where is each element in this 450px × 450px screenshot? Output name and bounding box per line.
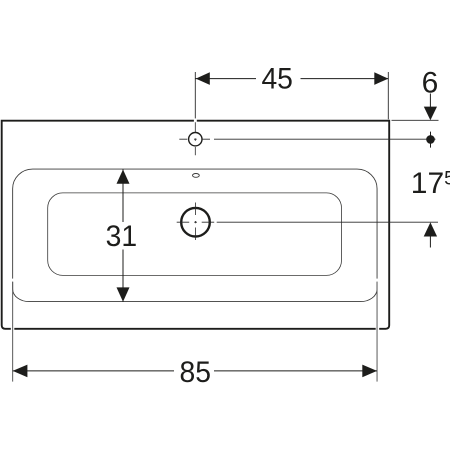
gap in top edge at tap centerline: [194, 119, 197, 123]
ceramic outline (outer rectangle): [2, 121, 390, 329]
dimension 45: dimension line: [195, 78, 388, 80]
dimension 31: dimension line: [122, 170, 124, 302]
tap hole vertical centerline dashes: [194, 122, 196, 155]
drain vertical centerline dashes: [195, 203, 197, 241]
tap hole horizontal centerline dashes: [179, 138, 210, 140]
dimension 45: extension line above right edge: [387, 72, 389, 119]
overflow slot (small ellipse): [193, 174, 200, 178]
svg-text:175: 175: [411, 167, 450, 200]
gap in bowl outer left edge above extension start: [12, 279, 14, 282]
dimension 45: left arrowhead: [196, 72, 210, 85]
dimension 45: extension line above tap hole: [194, 72, 196, 118]
dimension 45: right arrowhead: [374, 72, 388, 85]
tap centerline extension to the right toward dot terminator: [214, 138, 436, 140]
gap in bottom edge at left extension line: [11, 327, 15, 331]
dimension 6: top edge reference line extended right: [392, 119, 439, 121]
svg-text:31: 31: [106, 220, 138, 253]
drain centerline extension to the right: [217, 221, 438, 223]
dimension 6: down arrowhead: [424, 107, 437, 121]
svg-text:6: 6: [422, 67, 439, 100]
dimension 17.5: up arrowhead on drain centerline: [424, 222, 437, 236]
dimension 17.5: tail line below arrow: [429, 237, 431, 248]
dimension 85: right arrowhead: [362, 365, 377, 378]
dimension 85: left arrowhead: [13, 365, 28, 378]
drain horizontal centerline dashes: [177, 221, 215, 223]
dimension 85: dimension line: [13, 370, 377, 372]
dimension 31: up arrowhead: [117, 170, 130, 184]
dimension 85: right extension line: [376, 282, 378, 382]
basin bowl inner outline (rounded rect): [48, 193, 342, 276]
dimension 85: left extension line: [12, 282, 14, 382]
gap in bottom edge at right extension line: [376, 327, 380, 331]
svg-text:45: 45: [261, 63, 293, 96]
dot terminator vertical tick: [430, 132, 432, 148]
drain circle: [181, 208, 210, 237]
dimension 31: down arrowhead: [117, 287, 130, 301]
basin bowl outer outline (rounded rect): [13, 169, 377, 302]
dimension 6: dimension line above arrow: [429, 94, 431, 108]
dot terminator on tap centerline: [426, 135, 435, 144]
svg-text:85: 85: [180, 356, 212, 389]
gap in bowl outer right edge above extension start: [376, 279, 378, 282]
tap hole circle: [189, 133, 202, 146]
